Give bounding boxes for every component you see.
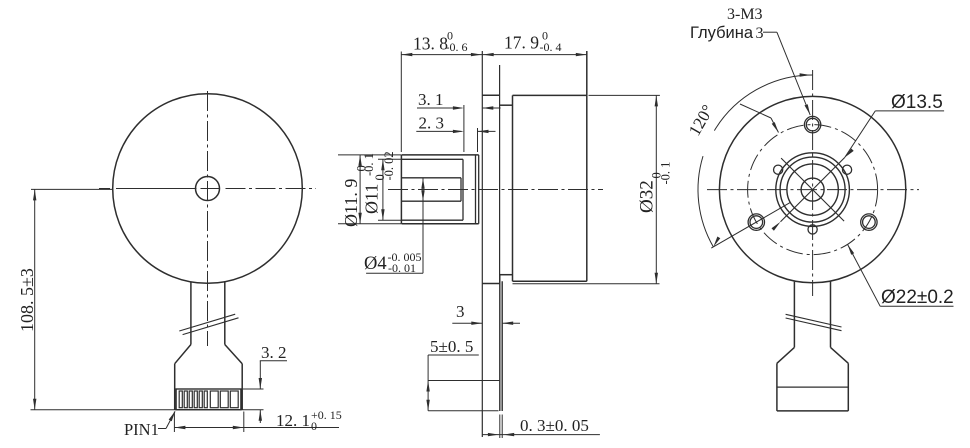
- rear view: hub circles: [776, 153, 850, 227]
- side view: neck section: [500, 104, 513, 106]
- svg-text:-0. 1: -0. 1: [658, 162, 672, 185]
- front view: connector flare: [175, 345, 191, 364]
- front view: baseline under pins: [31, 409, 244, 411]
- dimension 3.2: [243, 388, 264, 390]
- dimension 0.3±0.05: [482, 434, 600, 436]
- dimension 17.9 0/-0.4: [482, 54, 587, 56]
- svg-text:3. 1: 3. 1: [418, 90, 444, 109]
- svg-text:Ø32: Ø32: [637, 180, 658, 213]
- front view: connector pins: [179, 391, 182, 408]
- side view: front flange plate: [481, 51, 483, 437]
- svg-text:-0. 6: -0. 6: [446, 40, 468, 54]
- svg-text:Глубина: Глубина: [690, 24, 754, 42]
- rear view: connector flare: [777, 347, 795, 363]
- svg-text:0: 0: [311, 419, 317, 433]
- svg-text:2. 3: 2. 3: [419, 114, 445, 133]
- rear view: 120° dimension arc: [714, 75, 812, 131]
- dimension 2.3: [477, 128, 479, 152]
- rear view: cable sides: [793, 282, 795, 348]
- side view: shaft hub step (Ø11): [401, 158, 463, 160]
- svg-text:3: 3: [756, 25, 764, 42]
- svg-text:3. 2: 3. 2: [261, 343, 287, 362]
- dimension 13.8 0/-0.6: [400, 52, 402, 153]
- front view: encoder body circle: [113, 94, 303, 284]
- front view: cable sides: [190, 282, 192, 345]
- rear view: hub cross diagonals: [780, 157, 844, 221]
- dimension Ø4 -0.005/-0.01: [422, 178, 424, 273]
- side view: shaft hub outer (Ø11.9): [400, 155, 402, 224]
- rear view: M3 hole lower-left: [748, 214, 764, 230]
- dimension 108.5±3: [31, 188, 113, 190]
- rear view: radial extension line 210°: [711, 203, 790, 249]
- dimension Ø11.9 0/-0.1: [338, 154, 401, 156]
- svg-text:3: 3: [456, 302, 465, 321]
- leader Glubina to top M3 hole: [763, 31, 777, 33]
- svg-text:0. 3±0. 05: 0. 3±0. 05: [520, 416, 589, 435]
- rear view: vertical centerline: [812, 70, 814, 296]
- svg-text:-0. 1: -0. 1: [362, 153, 376, 176]
- svg-text:Ø13.5: Ø13.5: [891, 92, 943, 113]
- svg-text:-0. 02: -0. 02: [382, 151, 396, 180]
- rear view: body outer circle: [719, 96, 905, 282]
- dimension 12.1 +0.15/0: [173, 412, 175, 433]
- front view: connector pin strip outline: [176, 389, 241, 410]
- front view: connector sides: [174, 364, 176, 410]
- rear view: horizontal centerline: [707, 189, 919, 191]
- dimension 3.1: [463, 105, 465, 152]
- svg-text:13. 8: 13. 8: [413, 33, 448, 53]
- dimension Ø32 0/-0.1: [589, 94, 660, 96]
- rear view: cable break mark: [786, 314, 842, 327]
- front view: shaft center circle: [196, 177, 220, 201]
- svg-text:12. 1: 12. 1: [276, 411, 310, 430]
- svg-text:-0. 01: -0. 01: [388, 261, 416, 275]
- svg-text:108. 5±3: 108. 5±3: [17, 268, 37, 332]
- svg-text:3-М3: 3-М3: [727, 6, 763, 23]
- svg-text:PIN1: PIN1: [124, 420, 159, 439]
- rear view: M3 hole top: [804, 116, 820, 132]
- side view: washer/retainer plate: [475, 155, 477, 224]
- svg-text:Ø11. 9: Ø11. 9: [341, 179, 361, 227]
- side view: shaft bore (Ø4): [401, 177, 461, 179]
- front view: cable break mark: [179, 314, 235, 331]
- svg-text:5±0. 5: 5±0. 5: [430, 337, 473, 356]
- front view: vertical centerline: [207, 91, 209, 346]
- svg-text:Ø22±0.2: Ø22±0.2: [881, 287, 954, 308]
- svg-text:Ø11: Ø11: [361, 184, 381, 214]
- side view: cable edge lines: [499, 275, 501, 411]
- side view: horizontal centerline: [388, 189, 603, 191]
- front view: horizontal centerline: [99, 188, 110, 190]
- svg-text:Ø4: Ø4: [364, 254, 387, 274]
- rear view: connector body: [776, 363, 778, 411]
- rear view: set screw circles on Ø13.5: [842, 165, 851, 174]
- side view: main body Ø32: [512, 95, 514, 281]
- svg-text:-0. 4: -0. 4: [540, 40, 562, 54]
- svg-text:17. 9: 17. 9: [504, 33, 539, 53]
- rear view: bolt circle Ø22 (dash-dot): [748, 125, 878, 255]
- rear view: M3 hole lower-right: [861, 214, 877, 230]
- dimension Ø11 0/-0.02: [378, 158, 402, 160]
